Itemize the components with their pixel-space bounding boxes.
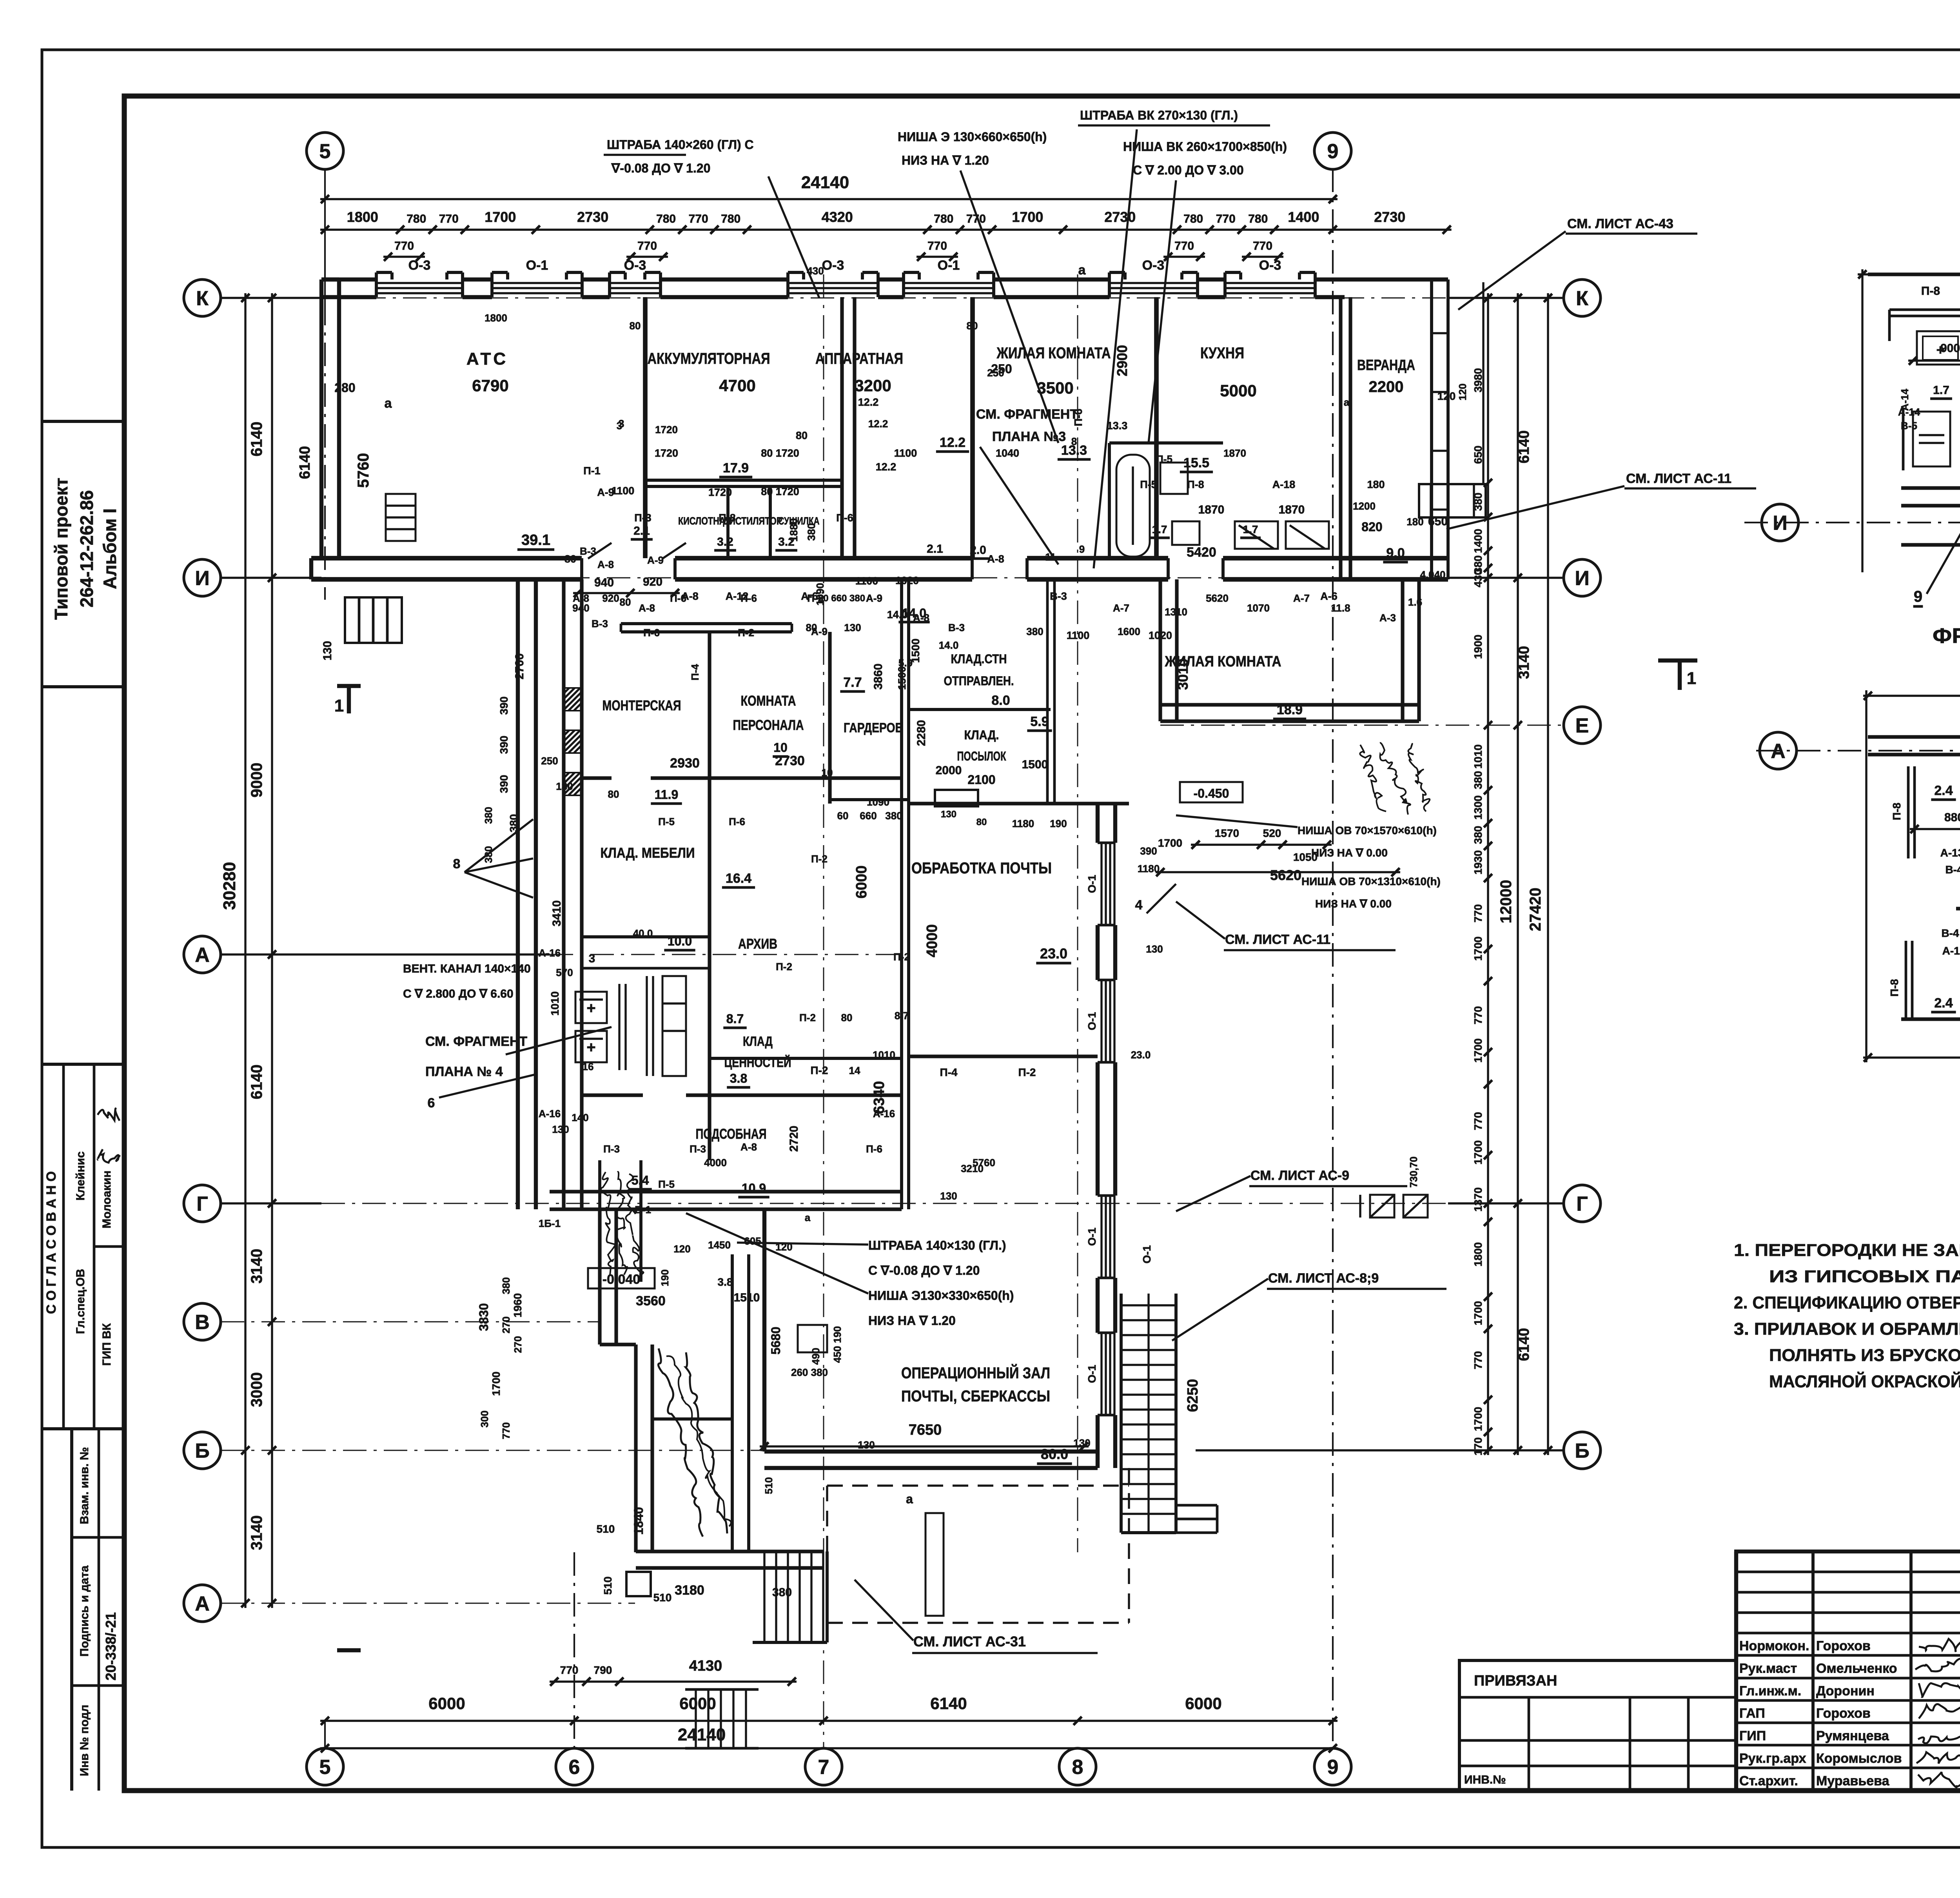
svg-text:а: а [906, 1492, 913, 1506]
svg-text:П-2: П-2 [738, 627, 754, 639]
svg-text:П-4: П-4 [689, 664, 701, 680]
svg-text:1570: 1570 [1215, 827, 1239, 839]
svg-text:3140: 3140 [1516, 646, 1532, 679]
svg-text:Горохов: Горохов [1816, 1706, 1871, 1721]
svg-text:80: 80 [841, 1012, 853, 1023]
svg-text:НИЗ НА ∇ 1.20: НИЗ НА ∇ 1.20 [868, 1314, 956, 1328]
svg-text:264-12-262.86: 264-12-262.86 [76, 490, 97, 607]
svg-text:80: 80 [564, 553, 576, 565]
left stamp strip: inv table [72, 1427, 124, 1430]
svg-text:НИЗ НА ∇ 1.20: НИЗ НА ∇ 1.20 [902, 153, 989, 167]
svg-text:П-5: П-5 [658, 816, 675, 827]
svg-text:П-2: П-2 [1018, 1066, 1036, 1078]
svg-text:1700: 1700 [490, 1372, 502, 1396]
svg-text:ГАП: ГАП [1739, 1706, 1765, 1721]
svg-text:МОНТЕРСКАЯ: МОНТЕРСКАЯ [603, 697, 681, 713]
svg-text:780: 780 [1183, 212, 1203, 225]
svg-text:О-1: О-1 [526, 258, 548, 273]
svg-text:П-6: П-6 [740, 592, 757, 604]
svg-text:О-3: О-3 [1259, 258, 1281, 273]
hall west protrusion walls [598, 1209, 601, 1345]
mail room east wall with windows [1096, 804, 1100, 843]
svg-text:ПРИВЯЗАН: ПРИВЯЗАН [1474, 1673, 1557, 1689]
svg-text:3560: 3560 [636, 1294, 666, 1308]
privyazan block [1459, 1660, 1736, 1791]
svg-text:14.0: 14.0 [887, 609, 908, 621]
svg-text:СМ. ЛИСТ АС-11: СМ. ЛИСТ АС-11 [1626, 471, 1731, 486]
svg-text:1.7: 1.7 [1933, 384, 1949, 397]
svg-text:П-2: П-2 [893, 951, 910, 963]
svg-text:1400: 1400 [1472, 529, 1484, 553]
svg-text:120: 120 [775, 1241, 792, 1253]
svg-text:Е: Е [1575, 715, 1589, 737]
svg-text:Рук.гр.арх: Рук.гр.арх [1739, 1751, 1806, 1766]
svg-text:А: А [195, 1593, 210, 1615]
svg-text:∇-0.08 ДО ∇ 1.20: ∇-0.08 ДО ∇ 1.20 [611, 161, 710, 175]
svg-text:Гл.спец.ОВ: Гл.спец.ОВ [74, 1269, 87, 1334]
svg-text:7650: 7650 [909, 1422, 942, 1438]
svg-text:2000: 2000 [936, 764, 962, 777]
svg-text:2. СПЕЦИФИКАЦИЮ ОТВЕРСТИЙ: 2. СПЕЦИФИКАЦИЮ ОТВЕРСТИЙ СМ. НА ЛИСТЕ А… [1734, 1292, 1960, 1312]
svg-text:2730: 2730 [1104, 209, 1136, 225]
svg-text:1100: 1100 [855, 575, 878, 587]
svg-text:2730: 2730 [775, 753, 805, 768]
svg-text:7: 7 [818, 1756, 829, 1779]
svg-text:1: 1 [334, 696, 344, 715]
fragment 3 lower wall [1901, 543, 1960, 546]
svg-text:270: 270 [500, 1316, 512, 1333]
svg-text:а: а [1078, 263, 1086, 278]
svg-text:1090: 1090 [867, 796, 889, 808]
svg-text:1700: 1700 [1472, 1038, 1484, 1063]
svg-text:9: 9 [1079, 543, 1085, 555]
svg-text:НИША ОВ 70×1570×610(h): НИША ОВ 70×1570×610(h) [1298, 824, 1437, 836]
svg-text:А-16: А-16 [539, 1108, 561, 1120]
svg-text:3.2: 3.2 [717, 535, 733, 548]
svg-text:5.9: 5.9 [1030, 714, 1049, 729]
small square 510 [626, 1572, 651, 1596]
svg-text:А-8: А-8 [597, 559, 614, 570]
wardrobe wall x2117 [828, 632, 831, 804]
svg-text:130: 130 [1073, 1437, 1090, 1449]
svg-text:1400: 1400 [1288, 209, 1319, 225]
svg-text:250: 250 [541, 755, 558, 767]
svg-text:ШТРАБА 140×260 (ГЛ) С: ШТРАБА 140×260 (ГЛ) С [607, 138, 754, 152]
axis 9 vertical [1332, 169, 1334, 1748]
svg-text:1Б-1: 1Б-1 [539, 1218, 561, 1229]
svg-text:2100: 2100 [967, 773, 995, 787]
svg-text:770: 770 [1472, 1006, 1484, 1025]
svg-text:940: 940 [572, 602, 589, 614]
svg-text:1450: 1450 [708, 1239, 731, 1251]
svg-text:А-18: А-18 [1272, 479, 1296, 490]
svg-text:К: К [1576, 287, 1588, 310]
svg-text:ВЕРАНДА: ВЕРАНДА [1357, 357, 1415, 374]
bath tub [1116, 455, 1150, 557]
axis circle I left [184, 559, 221, 596]
svg-text:2730: 2730 [1374, 209, 1405, 225]
svg-text:А: А [195, 944, 210, 967]
axis K horizontal [221, 297, 321, 299]
axis circle K left [184, 279, 221, 316]
svg-text:В-3: В-3 [948, 622, 965, 633]
svg-text:И: И [1575, 567, 1589, 590]
svg-text:1370: 1370 [1472, 1187, 1484, 1212]
svg-text:5620: 5620 [1270, 867, 1301, 883]
svg-text:300: 300 [479, 1410, 490, 1427]
fragment 3 top wall [1868, 272, 1960, 276]
wood grain patch podsobnaya [601, 1172, 615, 1276]
axis B horizontal [221, 1450, 764, 1451]
svg-text:2730: 2730 [577, 209, 608, 225]
ATS interior stair/ramp [386, 494, 416, 541]
svg-text:П-5: П-5 [658, 1178, 675, 1190]
svg-text:780: 780 [1248, 212, 1268, 225]
svg-text:5680: 5680 [769, 1326, 783, 1354]
stair side entry steps [1176, 1504, 1217, 1507]
svg-text:К: К [196, 287, 209, 310]
svg-text:380: 380 [885, 810, 902, 822]
svg-text:5: 5 [319, 140, 331, 163]
svg-text:О-1: О-1 [1086, 1228, 1098, 1246]
bottom chains [320, 1720, 1338, 1722]
svg-text:А-8: А-8 [987, 553, 1004, 565]
svg-text:380: 380 [1472, 826, 1484, 844]
svg-text:АППАРАТНАЯ: АППАРАТНАЯ [815, 350, 903, 367]
svg-text:6000: 6000 [853, 866, 870, 899]
svg-text:4000: 4000 [704, 1157, 727, 1169]
svg-text:80: 80 [796, 430, 808, 441]
bathroom block [1109, 441, 1223, 445]
podsobnaya walls [600, 1190, 902, 1193]
svg-text:8.0: 8.0 [991, 693, 1010, 708]
wc [1160, 463, 1188, 494]
fragment 4 P-8 partition upper [1907, 766, 1910, 858]
axis circle A left mid [184, 936, 221, 973]
svg-text:6000: 6000 [428, 1694, 465, 1713]
svg-text:1010: 1010 [549, 991, 561, 1016]
svg-text:П-4: П-4 [940, 1066, 957, 1078]
svg-text:НИША ВК 260×1700×850(h): НИША ВК 260×1700×850(h) [1123, 140, 1287, 154]
svg-text:730,70: 730,70 [1408, 1156, 1419, 1188]
accumulator sub-rooms [645, 485, 842, 488]
axis 8 vertical [1077, 274, 1078, 1552]
svg-text:П-1: П-1 [583, 465, 600, 477]
svg-text:11.8: 11.8 [1331, 602, 1350, 614]
svg-text:7.7: 7.7 [843, 675, 862, 690]
svg-text:9: 9 [1914, 588, 1922, 605]
section mark T1 right [1658, 659, 1697, 662]
svg-text:а: а [1344, 396, 1350, 408]
svg-text:4320: 4320 [822, 209, 853, 225]
svg-text:П-2: П-2 [776, 961, 792, 973]
svg-text:В-3: В-3 [1050, 590, 1067, 602]
axis circle V left [184, 1303, 221, 1340]
svg-text:П-2: П-2 [810, 1064, 828, 1076]
svg-text:ФРАГМЕНТ ПЛАНА № 4: ФРАГМЕНТ ПЛАНА № 4 [1933, 624, 1960, 648]
svg-text:1870: 1870 [1279, 503, 1305, 516]
svg-text:4.040: 4.040 [1420, 569, 1445, 581]
axis 6 vertical [573, 1552, 575, 1748]
svg-text:605: 605 [744, 1235, 761, 1247]
svg-text:130: 130 [321, 641, 334, 660]
kitchen fixtures [1235, 521, 1278, 549]
svg-text:15.5: 15.5 [1183, 455, 1209, 470]
svg-text:3: 3 [617, 420, 622, 432]
svg-text:НИША ОВ 70×1310×610(h): НИША ОВ 70×1310×610(h) [1301, 875, 1441, 887]
svg-text:5: 5 [319, 1756, 331, 1779]
right staircase outside [1120, 1294, 1123, 1533]
svg-text:80 1720: 80 1720 [761, 486, 799, 497]
svg-text:190: 190 [1050, 818, 1067, 829]
left stamp strip: approval table [42, 1063, 124, 1066]
svg-text:П-2: П-2 [807, 592, 824, 604]
svg-text:1880: 1880 [788, 518, 800, 542]
svg-text:80: 80 [630, 320, 641, 332]
svg-text:5000: 5000 [1220, 381, 1256, 400]
svg-text:2930: 2930 [670, 756, 700, 771]
right chains [1487, 293, 1489, 1455]
svg-text:КУХНЯ: КУХНЯ [1200, 345, 1244, 362]
svg-text:ШТРАБА 140×130 (ГЛ.): ШТРАБА 140×130 (ГЛ.) [868, 1238, 1006, 1252]
right outdoor column line [1482, 282, 1484, 484]
svg-text:П-3: П-3 [634, 512, 651, 524]
svg-text:190: 190 [659, 1269, 671, 1286]
porch steps bottom [763, 1551, 765, 1642]
axis circle K right [1564, 279, 1601, 316]
svg-text:1010: 1010 [873, 1049, 895, 1061]
svg-text:1700: 1700 [485, 209, 516, 225]
mid-left exterior wall [516, 579, 520, 1209]
svg-text:60: 60 [837, 810, 849, 822]
svg-text:НИША Э130×330×650(h): НИША Э130×330×650(h) [868, 1288, 1014, 1303]
axis circle I right [1564, 559, 1601, 596]
svg-text:80: 80 [806, 622, 817, 633]
svg-text:380: 380 [508, 814, 520, 833]
svg-text:А-8: А-8 [913, 612, 929, 624]
svg-text:ГИП: ГИП [1739, 1729, 1766, 1744]
axis circle 5 top [307, 132, 343, 169]
svg-text:ОТПРАВЛЕН.: ОТПРАВЛЕН. [944, 674, 1014, 688]
svg-text:11: 11 [1045, 551, 1056, 563]
svg-text:380: 380 [1026, 626, 1043, 637]
svg-text:650: 650 [1428, 515, 1448, 528]
svg-text:920: 920 [602, 592, 619, 604]
fragment 4 bottom wall [1901, 1017, 1960, 1021]
svg-text:3010: 3010 [1175, 659, 1191, 690]
svg-text:1500: 1500 [1022, 758, 1048, 771]
svg-text:170: 170 [1472, 1437, 1484, 1456]
svg-text:130: 130 [941, 809, 956, 820]
svg-text:120: 120 [1457, 383, 1468, 400]
svg-text:1040: 1040 [996, 447, 1019, 459]
svg-text:В: В [195, 1311, 210, 1334]
svg-text:МАСЛЯНОЙ ОКРАСКОЙ.: МАСЛЯНОЙ ОКРАСКОЙ. [1769, 1371, 1960, 1391]
svg-text:24140: 24140 [678, 1725, 726, 1744]
svg-text:13.3: 13.3 [1107, 420, 1128, 432]
svg-text:А-9: А-9 [647, 554, 664, 566]
svg-text:6: 6 [428, 1096, 435, 1110]
svg-text:В-3: В-3 [592, 618, 608, 630]
svg-text:Нормокон.: Нормокон. [1739, 1639, 1809, 1653]
svg-text:И: И [1773, 512, 1787, 535]
svg-text:О-1: О-1 [1086, 875, 1098, 893]
svg-text:1510: 1510 [734, 1291, 760, 1304]
svg-text:80: 80 [608, 788, 619, 800]
svg-text:80 1720: 80 1720 [761, 447, 799, 459]
svg-text:С ∇ 2.800 ДО ∇ 6.60: С ∇ 2.800 ДО ∇ 6.60 [403, 987, 514, 1000]
svg-text:3000: 3000 [248, 1372, 265, 1407]
svg-text:430: 430 [1472, 569, 1484, 588]
svg-text:1700: 1700 [1472, 1140, 1484, 1165]
svg-text:1. ПЕРЕГОРОДКИ НЕ ЗАМАРКИРО: 1. ПЕРЕГОРОДКИ НЕ ЗАМАРКИРОВАННЫЕ НА ПЛА… [1734, 1241, 1960, 1260]
svg-text:770: 770 [500, 1422, 512, 1439]
canopy dashed [827, 1484, 1129, 1486]
axis E horizontal right [1160, 725, 1564, 726]
svg-text:АККУМУЛЯТОРНАЯ: АККУМУЛЯТОРНАЯ [648, 350, 770, 367]
svg-text:О-3: О-3 [822, 258, 844, 273]
svg-text:6140: 6140 [248, 422, 265, 457]
svg-text:180: 180 [1367, 479, 1385, 490]
veranda right wall [1430, 279, 1433, 579]
tambour inner walls [731, 1254, 734, 1551]
svg-text:3830: 3830 [477, 1303, 491, 1331]
svg-text:9: 9 [1327, 140, 1339, 163]
svg-text:23.0: 23.0 [1131, 1049, 1151, 1061]
svg-text:2700: 2700 [513, 653, 526, 680]
left stamp strip: project name block [42, 420, 124, 423]
svg-text:ПЛАНА № 4: ПЛАНА № 4 [425, 1064, 503, 1079]
svg-text:П-8: П-8 [1888, 979, 1900, 996]
svg-text:12.2: 12.2 [868, 418, 888, 430]
svg-text:КЛАД.: КЛАД. [964, 728, 999, 742]
svg-text:14: 14 [849, 1065, 860, 1076]
axis circle 8 bottom [1059, 1748, 1096, 1785]
fragment 4 central cross wall [1956, 907, 1960, 910]
wavy stone area entrance [658, 1348, 703, 1537]
mid-left inner wall [562, 579, 565, 1209]
svg-text:510: 510 [653, 1591, 672, 1604]
svg-text:Муравьева: Муравьева [1816, 1773, 1890, 1788]
axis I horizontal [221, 577, 321, 579]
svg-text:6140: 6140 [1516, 1328, 1532, 1361]
svg-text:780: 780 [934, 212, 953, 225]
svg-text:ПОДСОБНАЯ: ПОДСОБНАЯ [696, 1126, 767, 1142]
left segments [271, 293, 273, 1608]
svg-text:3180: 3180 [675, 1583, 704, 1598]
svg-text:510: 510 [763, 1477, 775, 1494]
svg-text:770: 770 [689, 212, 708, 225]
svg-text:11.9: 11.9 [655, 788, 679, 802]
svg-text:1870: 1870 [1198, 503, 1225, 516]
svg-text:+: + [586, 1039, 595, 1056]
svg-text:770: 770 [439, 212, 459, 225]
partition room-persons divider [708, 632, 711, 778]
svg-text:5620: 5620 [1206, 592, 1229, 604]
svg-text:770: 770 [1253, 240, 1272, 252]
svg-text:О-1: О-1 [938, 258, 960, 273]
hall bottom wall at B [764, 1450, 1098, 1453]
svg-text:510: 510 [597, 1523, 615, 1535]
svg-text:П-3: П-3 [603, 1143, 620, 1155]
svg-text:770: 770 [1472, 1112, 1484, 1130]
svg-text:1700: 1700 [1012, 209, 1043, 225]
svg-text:Г: Г [1576, 1193, 1588, 1216]
svg-text:27420: 27420 [1527, 887, 1544, 931]
svg-text:АТС: АТС [466, 349, 508, 368]
ATS south entrance stair [345, 597, 402, 643]
svg-text:А-14: А-14 [1898, 406, 1920, 418]
svg-text:О-1: О-1 [1141, 1245, 1153, 1264]
axis 7 vertical [823, 274, 824, 1748]
svg-text:2.1: 2.1 [633, 524, 650, 537]
svg-text:490: 490 [810, 1348, 822, 1365]
svg-text:12.2: 12.2 [876, 461, 897, 473]
svg-text:1700: 1700 [1472, 936, 1484, 961]
svg-text:А-9: А-9 [597, 486, 614, 498]
svg-text:390: 390 [1140, 845, 1157, 857]
svg-text:ГИП ВК: ГИП ВК [100, 1323, 113, 1366]
svg-text:1700: 1700 [1472, 1407, 1484, 1431]
mail processing bottom wall [909, 1054, 1098, 1058]
svg-text:Клейнис: Клейнис [74, 1151, 87, 1200]
section mark 1-1 left [337, 684, 361, 688]
vent blocks at G [1370, 1195, 1394, 1218]
svg-text:О-3: О-3 [624, 258, 646, 273]
svg-text:ПОЛНЯТЬ ИЗ БРУСКОВ ХВОЙНЫХ: ПОЛНЯТЬ ИЗ БРУСКОВ ХВОЙНЫХ ПОРОД ПО МЕСТ… [1769, 1345, 1960, 1365]
svg-text:130: 130 [844, 622, 861, 633]
svg-text:1720: 1720 [708, 486, 732, 498]
svg-text:А-16: А-16 [873, 1108, 895, 1120]
svg-text:3860: 3860 [872, 664, 885, 690]
svg-text:14.0: 14.0 [939, 639, 959, 651]
hatched piers on left wall [564, 688, 582, 711]
svg-text:СМ. ФРАГМЕНТ: СМ. ФРАГМЕНТ [425, 1034, 527, 1049]
svg-text:О-1: О-1 [1086, 1012, 1098, 1031]
svg-text:12.2: 12.2 [858, 396, 879, 408]
left exterior wall upper [319, 279, 323, 558]
svg-text:А: А [1771, 740, 1786, 763]
axis circle 9 top [1314, 132, 1351, 169]
svg-text:390: 390 [498, 736, 510, 754]
svg-text:30280: 30280 [220, 862, 239, 910]
kladovie walls right of corridor [909, 708, 1051, 711]
svg-text:660: 660 [860, 810, 877, 822]
svg-text:ПОСЫЛОК: ПОСЫЛОК [957, 749, 1006, 763]
fragment 3 dims [1908, 359, 1960, 361]
svg-text:Инв № подл: Инв № подл [78, 1705, 91, 1776]
svg-text:А-9: А-9 [866, 592, 882, 604]
fragment 4 axis A [1756, 750, 1960, 751]
svg-text:9: 9 [1327, 1756, 1339, 1779]
svg-text:А-3: А-3 [1379, 612, 1396, 624]
axis circle 6 bottom [556, 1748, 593, 1785]
svg-text:380: 380 [1472, 771, 1484, 789]
svg-text:1700: 1700 [1472, 1301, 1484, 1325]
svg-text:Горохов: Горохов [1816, 1639, 1871, 1653]
bottom small dims [550, 1680, 797, 1682]
svg-text:510: 510 [602, 1577, 614, 1595]
svg-text:И: И [195, 567, 209, 590]
axis circle 5 bottom [307, 1748, 343, 1785]
svg-text:6000: 6000 [679, 1694, 716, 1713]
svg-text:2.0: 2.0 [970, 544, 986, 557]
svg-text:770: 770 [927, 240, 947, 252]
svg-text:3140: 3140 [248, 1515, 265, 1550]
svg-text:СМ. ЛИСТ АС-9: СМ. ЛИСТ АС-9 [1250, 1168, 1349, 1183]
svg-text:КЛАД: КЛАД [743, 1034, 773, 1049]
svg-text:Типовой проект: Типовой проект [51, 478, 71, 620]
